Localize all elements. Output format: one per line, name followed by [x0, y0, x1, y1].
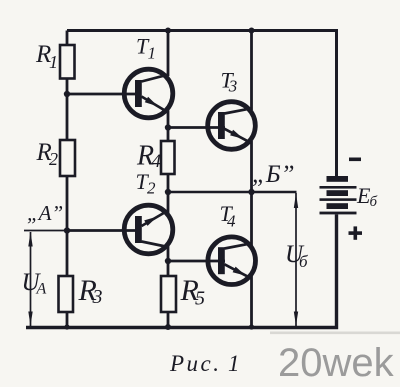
label R4 — [136, 141, 162, 173]
transistor T4 — [208, 237, 256, 285]
wire bottom rail with corner to battery — [26, 215, 337, 328]
dimension UA vertical line — [30, 232, 32, 326]
svg-text:1: 1 — [49, 52, 58, 72]
wire top rail to T3 — [250, 31, 253, 111]
wire T4 to bottom rail — [250, 276, 253, 327]
resistor R3 — [59, 276, 74, 312]
svg-text:A: A — [36, 281, 47, 298]
label R2 — [36, 139, 59, 169]
svg-text:б: б — [370, 194, 378, 210]
svg-text:„A”: „A” — [27, 201, 63, 225]
label T3 — [221, 68, 238, 96]
wire R5 to bottom rail — [167, 312, 170, 327]
label T2 — [136, 169, 157, 198]
wire top rail to T1 collector — [167, 31, 170, 77]
resistor R4 — [161, 141, 175, 174]
svg-text:4: 4 — [227, 212, 236, 231]
dimension UA arrow down — [28, 312, 32, 326]
transistor T3 — [208, 102, 256, 150]
wire top rail with corner to battery — [67, 31, 337, 177]
label T1 — [136, 34, 156, 63]
label E6 battery — [356, 183, 378, 210]
resistor R5 — [161, 276, 176, 312]
transistor T1 — [124, 69, 173, 118]
wire T1 emitter to R4 — [167, 111, 170, 142]
label R5 — [180, 274, 206, 310]
svg-text:Рис.: Рис. — [169, 351, 222, 376]
dimension UA reference line — [24, 230, 67, 232]
wire node Б horizontal — [168, 191, 297, 194]
battery minus sign — [349, 158, 361, 162]
resistor R1 — [60, 45, 75, 79]
svg-text:2: 2 — [147, 179, 156, 198]
dimension UA arrow up — [28, 232, 32, 247]
transistor T2 — [124, 205, 173, 254]
wire T3 to T4 through node Б — [250, 141, 253, 246]
svg-text:2: 2 — [49, 149, 58, 169]
wire left branch top stub — [66, 31, 69, 46]
wire T2 base — [67, 229, 141, 232]
svg-text:3: 3 — [92, 286, 103, 308]
svg-text:б: б — [299, 252, 308, 271]
label R1 — [35, 41, 58, 72]
svg-text:4: 4 — [152, 151, 162, 172]
battery plus sign — [349, 226, 363, 239]
battery E6 plates — [320, 176, 357, 214]
faint scan line bottom right — [270, 332, 400, 335]
svg-text:1: 1 — [228, 351, 240, 376]
wire R2 to R3 — [66, 176, 69, 276]
svg-text:1: 1 — [148, 44, 157, 63]
wire R3 to bottom rail — [66, 312, 69, 327]
wire T3 base — [168, 126, 225, 129]
wire R1 to R2 — [66, 79, 69, 141]
wire T4 base — [168, 260, 225, 263]
wire R4 to T2 — [167, 174, 170, 213]
resistor R2 — [60, 140, 75, 176]
wire T1 base — [67, 93, 141, 96]
label T4 — [220, 201, 237, 231]
wire T2 emitter to R5 node — [167, 246, 170, 276]
svg-text:„Б”: „Б” — [252, 161, 295, 188]
label U6 — [285, 241, 308, 271]
svg-text:3: 3 — [228, 77, 238, 96]
dimension U6 arrow down — [294, 312, 298, 326]
label R3 — [78, 274, 103, 308]
svg-text:5: 5 — [195, 288, 205, 310]
label UA — [22, 269, 47, 298]
dimension U6 vertical line — [295, 193, 297, 326]
svg-text:20wek: 20wek — [278, 341, 395, 385]
dimension U6 arrow up — [294, 193, 298, 208]
